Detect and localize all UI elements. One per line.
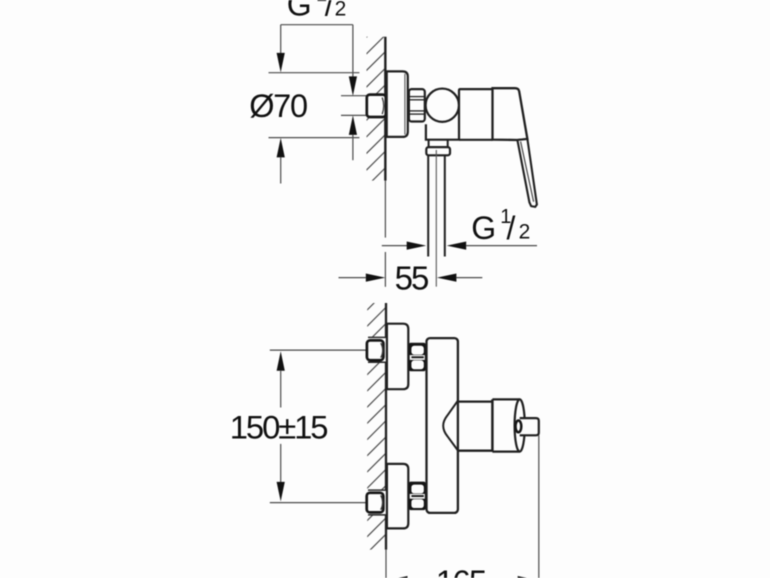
handle cylinder (bottom view): [492, 398, 519, 400]
extension lines of thread (for dim G1/2 top): [341, 95, 367, 97]
handle block (top view): [493, 88, 528, 140]
dim 165 arrows (mostly below canvas): [387, 576, 408, 578]
pipe end arc inside top square: [381, 343, 383, 358]
wall extension line to 165 dim: [385, 550, 387, 578]
svg-text:/: /: [325, 0, 334, 23]
top inlet square union nut: [367, 340, 384, 360]
cartridge cylinder (bottom view): [458, 400, 492, 402]
knob base ellipse: [516, 421, 522, 433]
body underside / pedestal below ball: [426, 124, 460, 139]
outlet pipe walls: [427, 155, 429, 256]
flange inner edge line: [404, 74, 406, 135]
top escutcheon flange (bottom view): [387, 324, 408, 390]
label G1/2 top (cut off at top edge): [287, 0, 347, 23]
svg-text:G: G: [471, 210, 495, 246]
joint line between cylinders: [491, 399, 494, 451]
svg-text:150±15: 150±15: [230, 408, 327, 445]
svg-text:55: 55: [395, 260, 428, 297]
hex nut (top view): [409, 89, 425, 121]
valve body (top view): [459, 89, 493, 140]
pipe center line: [435, 150, 437, 287]
wall face line (top view): [384, 37, 386, 181]
dim G1/2 lower (pipe diameter): [382, 245, 407, 247]
dim G1/2 top vertical line and arrows: [352, 25, 354, 77]
escutcheon flange (top view): [387, 71, 408, 136]
svg-text:/: /: [507, 210, 516, 246]
svg-text:G: G: [287, 0, 311, 23]
outlet stub below body: [428, 140, 430, 147]
bottom hex nut (bottom view): [409, 482, 426, 511]
svg-text:Ø70: Ø70: [249, 88, 307, 124]
wall hatching (bottom view): [367, 291, 386, 569]
dim 55: [339, 277, 366, 279]
square union nut behind wall (top view): [367, 95, 386, 117]
top inlet eccentric plate: [368, 338, 386, 362]
extension lines for dim 150±15: [270, 349, 367, 351]
extension line from knob to 165 dim: [538, 436, 540, 578]
bottom inlet eccentric plate: [368, 490, 386, 514]
svg-text:165: 165: [436, 564, 486, 578]
svg-text:2: 2: [519, 221, 531, 244]
pipe end arc inside square (top view): [382, 98, 384, 115]
dim 150±15 vertical line and arrows: [277, 351, 285, 371]
extension lines of flange (for dim Ø70): [269, 72, 360, 74]
knob on handle end: [519, 418, 539, 435]
pipe end arc inside bottom square: [381, 495, 383, 510]
cone transition (bottom view): [443, 400, 458, 451]
svg-text:2: 2: [335, 0, 347, 20]
union ring nut on outlet: [426, 147, 450, 155]
ball joint (top view): [426, 89, 459, 122]
mixer body (bottom view): [427, 338, 458, 513]
leader line of G1/2 top label: [281, 24, 353, 26]
lever (top view): [517, 139, 537, 207]
wall face line (bottom view): [385, 303, 387, 550]
handle end ellipse: [515, 399, 525, 451]
bottom escutcheon flange (bottom view): [387, 464, 408, 529]
wall hatching (top view): [366, 18, 385, 203]
lever inner highlight line: [521, 142, 534, 202]
dim Ø70 vertical line and arrows: [280, 25, 282, 54]
wall extension line down to 55 dimension: [384, 181, 386, 238]
label G1/2 lower: [471, 206, 530, 246]
top hex nut (bottom view): [409, 343, 426, 372]
bottom inlet square union nut: [367, 493, 384, 513]
